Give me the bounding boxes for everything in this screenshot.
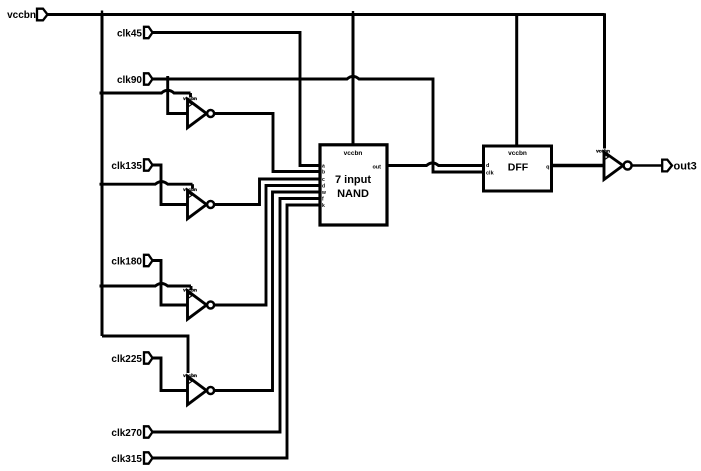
inverter U5 input pin marker [605, 155, 609, 160]
wire vccbn power drop to inverter U5 [603, 13, 606, 148]
svg-text:c: c [322, 177, 325, 183]
inverter U2 triangle (clk135 inverter) [188, 190, 207, 218]
block U6 7-input NAND body [320, 145, 387, 225]
wire inverter U5 output to port out3 [632, 164, 663, 166]
svg-text:k: k [322, 203, 325, 209]
svg-text:vccbn: vccbn [183, 96, 197, 102]
junction vccbn rail / NAND power drop (tick) [352, 11, 354, 15]
svg-text:clk45: clk45 [117, 29, 142, 40]
svg-text:clk: clk [486, 171, 495, 177]
svg-text:w: w [321, 190, 326, 196]
inverter U4 output bubble [207, 387, 214, 394]
svg-text:d: d [322, 184, 325, 190]
svg-text:b: b [322, 170, 325, 176]
wire vccbn power drop to DFF U7 [515, 15, 518, 146]
wire DFF q output to inverter U5 input [552, 164, 605, 167]
pin stub vccbn power pin of U2 [191, 184, 194, 188]
wire inverter U3 output to NAND pin d [214, 186, 319, 306]
inverter U3 output bubble [207, 302, 214, 309]
wire clk225 from port to inverter U4 input [153, 358, 189, 391]
wire inverter U2 output to NAND pin c [214, 179, 319, 205]
junction vccbn rail / left trunk (tick) [101, 11, 103, 15]
wire clk45 from port to NAND pin a [153, 33, 320, 166]
pin stub vccbn power pin of U1 [189, 93, 192, 97]
wire vccbn top rail [48, 13, 605, 16]
svg-text:vccbn: vccbn [7, 10, 36, 21]
wire clk90 from port to DFF clk pin, hops over NAND power drop [153, 76, 484, 172]
svg-text:vccbn: vccbn [344, 150, 363, 157]
svg-text:clk315: clk315 [111, 454, 142, 465]
svg-text:7 input: 7 input [335, 174, 371, 186]
svg-text:vccbn: vccbn [508, 150, 527, 157]
svg-text:clk180: clk180 [111, 257, 142, 268]
wire vccbn power drop to NAND U6 [352, 15, 355, 145]
inverter U5 output bubble [624, 162, 632, 170]
svg-text:out: out [372, 165, 381, 171]
port clk225 symbol [144, 352, 153, 363]
svg-text:clk225: clk225 [111, 354, 142, 365]
wire NAND out to DFF d pin, hops over clk90 vertical [387, 163, 484, 166]
svg-text:vccbn: vccbn [183, 288, 197, 294]
inverter U1 output bubble [207, 110, 214, 117]
wire vccbn left trunk [101, 13, 104, 336]
inverter U1 triangle (clk90 buffer inverter) [188, 99, 207, 127]
block U7 DFF body [484, 146, 552, 191]
svg-text:out3: out3 [674, 161, 697, 173]
inverter U1 input pin marker [189, 102, 193, 107]
wire vccbn branch to inverter U2, hops over clk135 drop [100, 182, 193, 185]
port clk90 symbol [144, 73, 153, 84]
svg-text:NAND: NAND [337, 188, 369, 200]
port clk180 symbol [144, 255, 153, 266]
wire vccbn branch to inverter U1, hops over clk90 drop [100, 90, 191, 93]
wire clk135 from port to inverter U2 input [153, 165, 189, 205]
wire clk180 from port to inverter U3 input [153, 261, 189, 306]
port vccbn symbol [37, 9, 48, 21]
svg-text:vccbn: vccbn [183, 187, 197, 193]
wire inverter U1 output to NAND pin b [214, 114, 319, 172]
inverter U4 input pin marker [189, 379, 193, 384]
inverter U3 triangle (clk180 inverter) [188, 291, 207, 319]
inverter U2 input pin marker [189, 193, 193, 198]
inverter U2 output bubble [207, 201, 214, 208]
svg-text:clk90: clk90 [117, 75, 142, 86]
port clk315 symbol [144, 452, 153, 463]
wire vccbn branch to inverter U3, hops over clk180 drop [100, 284, 192, 287]
port clk45 symbol [144, 27, 153, 38]
wire clk270 from port to NAND pin f [153, 199, 320, 433]
svg-text:DFF: DFF [508, 162, 529, 174]
svg-text:clk270: clk270 [111, 428, 142, 439]
wire clk315 from port to NAND pin k [153, 205, 320, 458]
port out3 symbol [662, 160, 672, 172]
svg-text:vccbn: vccbn [596, 148, 610, 154]
inverter U4 triangle (clk225 inverter) [188, 376, 207, 404]
port clk270 symbol [144, 426, 153, 437]
svg-text:d: d [486, 163, 489, 169]
inverter U3 input pin marker [189, 294, 193, 299]
wire vccbn branch to inverter U4 [102, 336, 188, 373]
pin stub vccbn power pin of U3 [190, 286, 193, 290]
svg-text:q: q [546, 165, 549, 171]
svg-text:clk135: clk135 [111, 161, 142, 172]
port clk135 symbol [144, 159, 153, 170]
svg-text:vccbn: vccbn [183, 373, 197, 379]
wire inverter U4 output to NAND pin w [214, 192, 319, 391]
wire clk90 tap to inverter U1 input (junction stub at top) [168, 76, 188, 114]
inverter U5 triangle (output inverter) [604, 152, 623, 180]
